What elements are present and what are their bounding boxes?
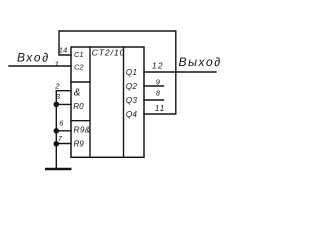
svg-text:3: 3 [56, 92, 61, 101]
svg-text:1: 1 [55, 59, 59, 68]
svg-text:14: 14 [59, 45, 67, 54]
svg-text:Q4: Q4 [126, 110, 138, 119]
svg-text:6: 6 [59, 119, 64, 128]
svg-text:&: & [74, 88, 81, 99]
svg-text:11: 11 [155, 104, 165, 113]
svg-text:Q2: Q2 [126, 82, 138, 91]
svg-text:R0: R0 [73, 102, 84, 111]
svg-text:Выхо∂: Выхо∂ [179, 55, 222, 69]
svg-text:R9: R9 [74, 140, 85, 149]
svg-text:9: 9 [156, 77, 161, 86]
svg-text:12: 12 [152, 61, 164, 70]
svg-text:CT2/10: CT2/10 [92, 47, 126, 57]
svg-text:2: 2 [54, 82, 60, 91]
svg-text:C1: C1 [74, 50, 84, 59]
svg-text:7: 7 [58, 134, 63, 143]
svg-text:Q3: Q3 [126, 96, 138, 105]
svg-text:C2: C2 [74, 62, 84, 71]
svg-text:8: 8 [156, 88, 161, 97]
svg-text:Q1: Q1 [126, 68, 137, 77]
svg-text:R9&: R9& [74, 126, 91, 135]
svg-text:Вхо∂: Вхо∂ [17, 51, 50, 65]
